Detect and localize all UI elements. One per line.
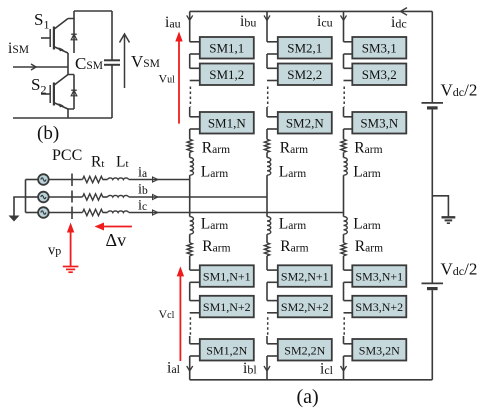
svg-text:Larm: Larm: [353, 164, 380, 181]
arrow ia: [153, 177, 159, 182]
wire bottom DC bus: [190, 379, 433, 381]
svg-text:SM1,1: SM1,1: [209, 40, 244, 55]
svg-text:Lt: Lt: [116, 154, 129, 171]
submodule SM1,N: [200, 112, 254, 134]
submodule SM2,N+2: [278, 296, 332, 318]
inductor Larm lower leg1: [190, 217, 194, 235]
wire leg2 midpoint vertical: [266, 175, 268, 216]
resistor Rarm upper leg3: [341, 139, 346, 152]
arrow vcl (red): [177, 266, 184, 361]
wire leg1 to SM1,2N: [189, 336, 191, 344]
svg-text:Rarm: Rarm: [280, 238, 308, 255]
wire stub from SM2,N+1 bottom: [267, 281, 278, 283]
svg-text:S2: S2: [31, 75, 46, 97]
wire left source bus: [25, 180, 27, 213]
svg-text:SM3,N+1: SM3,N+1: [355, 270, 403, 284]
svg-text:SM1,2: SM1,2: [209, 67, 244, 82]
svg-text:(a): (a): [297, 386, 319, 408]
wire stub from SM1,N+1 bottom: [190, 281, 200, 283]
svg-text:ial: ial: [167, 360, 181, 377]
inductor Larm lower leg3: [344, 217, 348, 235]
wire phase b from source to Rt: [49, 196, 83, 198]
submodule SM2,N+1: [278, 265, 332, 287]
inductor Larm lower leg2: [267, 217, 271, 235]
svg-text:Vdc/2: Vdc/2: [441, 81, 478, 100]
submodule SM2,2N: [278, 339, 332, 361]
wire stub to SM2,2 top: [267, 67, 278, 69]
svg-text:Vcl: Vcl: [159, 307, 175, 321]
svg-text:ia: ia: [138, 165, 147, 181]
submodule SM1,2N: [200, 339, 254, 361]
node PCC tick phase b: [71, 191, 73, 203]
inductor Lt phase a: [108, 178, 129, 180]
svg-text:SM1,N+2: SM1,N+2: [203, 300, 251, 314]
svg-text:Rarm: Rarm: [354, 140, 382, 157]
inductor Larm upper leg1: [190, 158, 194, 176]
wire leg1 between lower SM rows: [189, 282, 191, 300]
wire stub from SM3,2 bottom: [344, 80, 353, 82]
arrow leg2 upper current: [264, 15, 270, 20]
inductor Lt phase b: [108, 195, 129, 197]
wire phase c to converter: [129, 212, 344, 214]
diode D2: [71, 75, 77, 110]
wire phase c from source to Rt: [49, 212, 83, 214]
wire leg3 midpoint vertical: [343, 175, 345, 216]
wire S2 emitter to bottom rail: [68, 109, 74, 118]
wire stub from SM1,1 bottom: [190, 53, 200, 55]
wire stub to SM1,N top: [190, 116, 200, 118]
svg-text:SM1,N: SM1,N: [208, 115, 247, 130]
wire phase a to converter: [129, 179, 190, 181]
submodule SM2,2: [278, 64, 332, 86]
svg-text:SM2,2: SM2,2: [287, 67, 322, 82]
resistor Rarm lower leg2: [264, 243, 269, 256]
wire leg1 midpoint vertical: [189, 175, 191, 216]
svg-text:SM3,N: SM3,N: [360, 115, 399, 130]
submodule SM3,1: [352, 37, 406, 59]
resistor Rarm upper leg2: [264, 139, 269, 152]
inductor Larm upper leg3: [344, 158, 348, 176]
resistor Rt phase b: [83, 194, 103, 200]
wire S1 collector to top rail: [68, 11, 74, 19]
arrow leg1 upper current: [187, 15, 193, 20]
submodule SM1,2: [200, 64, 254, 86]
svg-text:SM2,N+1: SM2,N+1: [281, 270, 329, 284]
svg-text:SM2,N+2: SM2,N+2: [281, 300, 329, 314]
svg-text:SM1,N+1: SM1,N+1: [203, 270, 251, 284]
arrow ic: [153, 210, 159, 215]
wire right DC bus upper: [431, 11, 433, 103]
ground DC midpoint: [442, 217, 456, 223]
wire stub to SM2,N+2 top: [267, 300, 278, 302]
arrow idc: [401, 8, 408, 16]
wire leg2 dashed continuation upper: [267, 87, 269, 108]
arrow iSM: [31, 64, 36, 70]
AC source phase c: [38, 207, 49, 218]
wire leg1 dashed continuation upper: [189, 87, 191, 108]
wire stub from SM3,N+1 bottom: [344, 281, 353, 283]
svg-text:Rarm: Rarm: [202, 140, 230, 157]
svg-text:Larm: Larm: [201, 216, 228, 233]
wire phase a Rt to Lt: [103, 179, 108, 181]
ground AC neutral: [9, 216, 20, 222]
svg-text:iau: iau: [165, 14, 181, 31]
wire top DC bus: [190, 10, 433, 12]
wire leg2 between SM rows: [266, 54, 268, 68]
capacitor CSM: [104, 11, 120, 118]
wire leg3 between SM rows: [343, 54, 345, 68]
wire stub from SM3,N bottom: [344, 128, 353, 130]
arrow delta-v (red): [95, 223, 132, 231]
wire leg3 to SM3,N: [343, 107, 345, 117]
svg-text:Rarm: Rarm: [202, 238, 230, 255]
arrow VSM: [120, 34, 130, 88]
arrow leg3 upper current: [341, 15, 347, 20]
submodule SM3,N: [352, 112, 406, 134]
submodule SM3,N+2: [352, 296, 406, 318]
wire leg2 to bottom bus: [266, 356, 268, 380]
wire source a left stub: [26, 179, 39, 181]
wire leg1 SM,N to Rarm: [189, 129, 191, 139]
wire leg1 between SM rows: [189, 54, 191, 68]
svg-text:SM1,2N: SM1,2N: [206, 343, 247, 357]
wire leg1 dashed continuation lower: [189, 317, 191, 336]
transistor S2: [41, 75, 68, 110]
wire leg3 to bottom bus: [343, 356, 345, 380]
svg-text:ic: ic: [138, 198, 147, 214]
wire to AC ground: [14, 197, 26, 216]
wire phase a from source to Rt: [49, 179, 83, 181]
svg-text:Larm: Larm: [279, 216, 306, 233]
wire stub to SM1,1 top: [190, 41, 200, 43]
svg-text:SM3,2N: SM3,2N: [359, 343, 400, 357]
svg-text:SM3,1: SM3,1: [362, 40, 397, 55]
svg-text:Vdc/2: Vdc/2: [441, 260, 478, 279]
inductor Larm upper leg2: [267, 158, 271, 176]
wire stub to SM1,N+1 top: [190, 269, 200, 271]
wire stub from SM1,N bottom: [190, 128, 200, 130]
wire stub to SM3,N+1 top: [344, 269, 353, 271]
wire stub from SM1,N+2 bottom: [190, 312, 200, 314]
wire leg3 top bus to SM3,1: [343, 11, 345, 41]
wire stub to SM3,N+2 top: [344, 300, 353, 302]
wire leg3 SM,N to Rarm: [343, 129, 345, 139]
wire leg1 Rarm to Larm: [189, 152, 191, 157]
wire stub to SM3,1 top: [344, 41, 353, 43]
wire leg1 to bottom bus: [189, 356, 191, 380]
svg-text:Rarm: Rarm: [280, 140, 308, 157]
wire S1 emitter to midpoint: [67, 53, 69, 67]
svg-text:S1: S1: [34, 10, 49, 32]
svg-text:SM3,N+2: SM3,N+2: [355, 300, 403, 314]
svg-text:Larm: Larm: [353, 216, 380, 233]
wire stub to SM1,N+2 top: [190, 300, 200, 302]
wire stub from SM2,N bottom: [267, 128, 278, 130]
wire DC midpoint to ground: [432, 196, 448, 217]
wire source b left stub: [26, 196, 39, 198]
arrow vul (red): [175, 32, 182, 124]
svg-text:SM2,N: SM2,N: [286, 115, 325, 130]
wire stub from SM2,2 bottom: [267, 80, 278, 82]
wire stub from SM2,2N bottom: [267, 355, 278, 357]
arrow ib: [153, 194, 159, 199]
AC source phase a: [38, 174, 49, 185]
wire top rail: [74, 10, 112, 12]
wire leg3 between lower SM rows: [343, 282, 345, 300]
svg-text:Larm: Larm: [279, 164, 306, 181]
submodule SM2,1: [278, 37, 332, 59]
wire stub from SM2,N+2 bottom: [267, 312, 278, 314]
resistor Rt phase a: [83, 176, 103, 182]
svg-text:icu: icu: [317, 13, 333, 30]
resistor Rarm lower leg1: [187, 243, 192, 256]
wire leg2 Larm to Rarm lower: [266, 234, 268, 243]
svg-text:Vul: Vul: [159, 72, 176, 86]
svg-text:ibl: ibl: [243, 360, 257, 377]
svg-text:Rarm: Rarm: [355, 238, 383, 255]
wire leg2 between lower SM rows: [266, 282, 268, 300]
svg-text:PCC: PCC: [52, 147, 82, 164]
wire stub to SM2,N+1 top: [267, 269, 278, 271]
wire leg2 top bus to SM2,1: [266, 11, 268, 41]
arrow leg3 lower current: [341, 366, 347, 371]
svg-text:(b): (b): [37, 123, 59, 144]
svg-text:vp: vp: [48, 243, 61, 259]
wire leg2 to SM2,N: [266, 107, 268, 117]
wire leg3 dashed continuation lower: [343, 317, 345, 336]
wire stub to SM2,2N top: [267, 343, 278, 345]
wire leg3 to SM3,2N: [343, 336, 345, 344]
wire leg2 to SM2,2N: [266, 336, 268, 344]
arrow leg1 lower current: [187, 366, 193, 371]
svg-text:ib: ib: [138, 182, 148, 198]
submodule SM3,2: [352, 64, 406, 86]
svg-text:ibu: ibu: [240, 13, 256, 30]
svg-text:SM2,1: SM2,1: [287, 40, 322, 55]
resistor Rarm lower leg3: [341, 243, 346, 256]
wire iSM input: [13, 66, 68, 68]
wire bottom rail: [13, 117, 112, 119]
wire stub from SM2,1 bottom: [267, 53, 278, 55]
wire stub from SM1,2N bottom: [190, 355, 200, 357]
wire leg1 Larm to Rarm lower: [189, 234, 191, 243]
submodule SM1,N+1: [200, 265, 254, 287]
wire stub to SM3,2 top: [344, 67, 353, 69]
wire leg3 Rarm to Larm: [343, 152, 345, 157]
svg-text:SM3,2: SM3,2: [362, 67, 397, 82]
ground vp reference (red): [63, 267, 79, 273]
svg-text:icl: icl: [320, 361, 334, 378]
arrow leg2 lower current: [264, 366, 270, 371]
wire stub from SM3,1 bottom: [344, 53, 353, 55]
svg-text:idc: idc: [391, 14, 407, 31]
wire leg3 Rarm to SM3,N+1: [343, 256, 345, 270]
submodule SM1,N+2: [200, 296, 254, 318]
wire stub to SM1,2N top: [190, 343, 200, 345]
wire stub from SM3,N+2 bottom: [344, 312, 353, 314]
wire leg2 Rarm to Larm: [266, 152, 268, 157]
wire phase b Rt to Lt: [103, 196, 108, 198]
AC source phase b: [38, 192, 49, 203]
wire stub to SM2,N top: [267, 116, 278, 118]
battery Vdc/2 upper: [422, 103, 444, 108]
submodule SM3,2N: [352, 339, 406, 361]
node PCC tick phase a: [71, 174, 73, 187]
wire leg2 Rarm to SM2,N+1: [266, 256, 268, 270]
wire stub to SM3,2N top: [344, 343, 353, 345]
svg-text:iSM: iSM: [8, 40, 29, 57]
submodule SM2,N: [278, 112, 332, 134]
resistor Rt phase c: [83, 209, 103, 215]
wire right DC bus middle: [431, 110, 433, 284]
wire leg1 to SM1,N: [189, 107, 191, 117]
wire phase c Rt to Lt: [103, 212, 108, 214]
svg-text:SM2,2N: SM2,2N: [284, 343, 325, 357]
svg-text:CSM: CSM: [75, 54, 103, 73]
wire leg1 Rarm to SM1,N+1: [189, 256, 191, 270]
wire leg2 SM,N to Rarm: [266, 129, 268, 139]
svg-text:Δv: Δv: [106, 230, 127, 250]
transistor S1: [41, 19, 68, 54]
battery Vdc/2 lower: [422, 283, 444, 288]
wire phase b to converter: [129, 196, 267, 198]
wire leg2 dashed continuation lower: [267, 317, 269, 336]
svg-text:Rt: Rt: [91, 154, 104, 171]
wire stub to SM2,1 top: [267, 41, 278, 43]
wire source c left stub: [26, 212, 39, 214]
node PCC tick phase c: [71, 207, 73, 220]
wire stub to SM3,N top: [344, 116, 353, 118]
submodule SM3,N+1: [352, 265, 406, 287]
resistor Rarm upper leg1: [187, 139, 192, 152]
svg-text:Larm: Larm: [201, 164, 228, 181]
submodule SM1,1: [200, 37, 254, 59]
svg-text:VSM: VSM: [131, 52, 160, 71]
inductor Lt phase c: [108, 211, 129, 213]
wire stub to SM1,2 top: [190, 67, 200, 69]
wire leg3 Larm to Rarm lower: [343, 234, 345, 243]
wire right DC bus lower: [431, 290, 433, 380]
wire leg3 dashed continuation upper: [343, 87, 345, 108]
wire midpoint to S2 collector: [68, 67, 74, 75]
diode D1: [71, 19, 77, 54]
wire stub from SM3,2N bottom: [344, 355, 353, 357]
wire stub from SM1,2 bottom: [190, 80, 200, 82]
wire leg1 top bus to SM1,1: [189, 11, 191, 41]
arrow vp (red): [67, 223, 74, 267]
